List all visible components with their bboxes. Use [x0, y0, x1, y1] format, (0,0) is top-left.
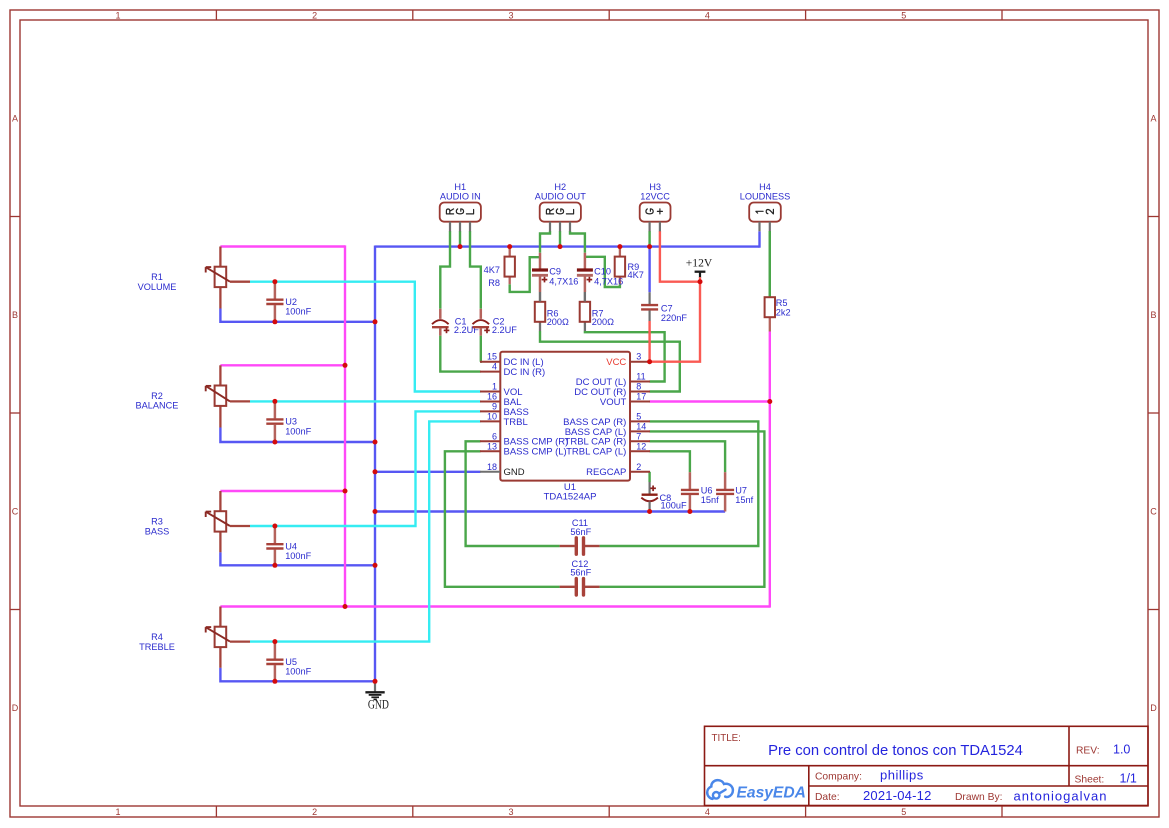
svg-text:5: 5 [901, 10, 906, 20]
U1 pin 15 DC IN (L) [480, 352, 544, 368]
svg-text:C: C [12, 507, 19, 517]
svg-text:U6: U6 [701, 486, 713, 496]
capacitor U5 [266, 642, 311, 682]
svg-text:AUDIO OUT: AUDIO OUT [535, 192, 586, 202]
capacitor U4 [266, 526, 311, 565]
svg-text:2.2UF: 2.2UF [492, 325, 517, 335]
svg-text:56nF: 56nF [570, 568, 591, 578]
wire GND bus [375, 245, 760, 247]
wire magenta right vertical R5/VOUT [769, 332, 771, 608]
capacitor C11 [560, 518, 600, 554]
svg-text:+12V: +12V [686, 255, 713, 269]
svg-text:H4: H4 [759, 182, 771, 192]
U1 pin 11 DC OUT (L) [576, 372, 650, 388]
svg-text:16: 16 [487, 392, 497, 402]
svg-text:10: 10 [487, 411, 497, 421]
svg-text:5: 5 [901, 807, 906, 817]
svg-text:4: 4 [705, 10, 710, 20]
wire TRBL cyan R4 wiper to pin 10 [250, 421, 481, 641]
wire U1 pin 5 to C11 [600, 421, 759, 546]
power flag +12V [686, 255, 713, 281]
svg-text:BALANCE: BALANCE [136, 401, 179, 411]
wire R2 top magenta [220, 364, 345, 366]
U1 pin 14 BASS CAP (L) [565, 421, 650, 437]
wire H1 G pin to bus [459, 231, 461, 247]
wire GND vertical [374, 246, 376, 682]
EasyEDA logo [707, 780, 806, 801]
wire R3 top magenta [220, 490, 345, 492]
U1 pin 2 REGCAP [586, 462, 650, 478]
svg-text:U5: U5 [285, 657, 297, 667]
svg-text:Sheet:: Sheet: [1075, 775, 1105, 786]
wire U1 pin 7 to U7 [650, 441, 726, 472]
wire C7 bottom to VCC [648, 321, 650, 362]
svg-text:R3: R3 [151, 517, 163, 527]
svg-text:Date:: Date: [815, 792, 840, 803]
svg-text:A: A [12, 114, 18, 124]
svg-text:EasyEDA: EasyEDA [737, 784, 806, 801]
capacitor U6 [681, 472, 719, 511]
U1 pin 3 VCC [606, 352, 650, 368]
resistor R8 [484, 247, 515, 288]
svg-text:1/1: 1/1 [1120, 772, 1137, 786]
wire +12V to U1 pin 3 VCC [650, 282, 701, 362]
svg-text:GND: GND [504, 467, 525, 478]
U1 pin 16 BAL [480, 392, 521, 408]
wire R3 bottom to GND [220, 552, 375, 565]
svg-text:C9: C9 [549, 267, 561, 277]
wire BAL cyan R2 wiper to pin 16 [250, 400, 481, 402]
wire R1 bottom to GND [220, 309, 375, 322]
wire U1 pin 14 to C12 [600, 431, 765, 586]
svg-text:Company:: Company: [815, 772, 862, 783]
resistor R6 [535, 292, 569, 331]
svg-text:H2: H2 [554, 182, 566, 192]
capacitor C10 [577, 253, 623, 302]
junction dots [272, 244, 772, 684]
svg-text:VCC: VCC [606, 357, 626, 368]
svg-text:220nF: 220nF [661, 313, 687, 323]
svg-text:TRBL: TRBL [504, 417, 528, 428]
svg-text:100nF: 100nF [285, 426, 311, 436]
svg-text:200Ω: 200Ω [592, 317, 614, 327]
wire R7 bottom to U1 pin 11 [585, 331, 665, 382]
svg-text:100nF: 100nF [285, 307, 311, 317]
ground symbol GND [365, 682, 389, 712]
svg-text:BASS CMP (L): BASS CMP (L) [504, 447, 567, 458]
wire R1 top magenta [220, 245, 345, 247]
capacitor C2 [473, 309, 518, 336]
svg-text:1.0: 1.0 [1113, 743, 1130, 757]
svg-text:1: 1 [492, 382, 497, 392]
wire BASS cyan R3 wiper to pin 9 [250, 411, 481, 526]
svg-text:H1: H1 [454, 182, 466, 192]
wire H1 R pin to C1 [440, 231, 450, 309]
svg-text:3: 3 [508, 807, 513, 817]
wire C12 to U1 pin 13 [445, 451, 560, 587]
header H2 [535, 182, 586, 231]
svg-text:7: 7 [636, 431, 641, 441]
svg-text:3: 3 [508, 10, 513, 20]
svg-text:R5: R5 [776, 298, 788, 308]
svg-text:B: B [12, 310, 18, 320]
svg-text:Drawn By:: Drawn By: [955, 792, 1003, 803]
U1 pin 1 VOL [480, 382, 523, 398]
potentiometer R2 [136, 365, 250, 427]
svg-text:B: B [1150, 310, 1156, 320]
U1 pin 10 TRBL [480, 411, 528, 427]
U1 pin 17 VOUT [600, 392, 650, 408]
resistor R5 [765, 231, 791, 332]
svg-text:9: 9 [492, 401, 497, 411]
svg-text:18: 18 [487, 462, 497, 472]
svg-text:4,7X16: 4,7X16 [549, 276, 578, 286]
wire bus to H4 pin1 [758, 231, 760, 247]
svg-text:1: 1 [115, 10, 120, 20]
svg-text:U2: U2 [285, 297, 297, 307]
svg-text:LOUDNESS: LOUDNESS [740, 192, 791, 202]
svg-text:13: 13 [487, 441, 497, 451]
svg-text:U7: U7 [735, 486, 747, 496]
IC U1 TDA1524AP [500, 352, 630, 503]
svg-text:4K7: 4K7 [628, 270, 644, 280]
svg-text:6: 6 [492, 431, 497, 441]
svg-text:TITLE:: TITLE: [712, 733, 741, 744]
wire to U1 pin 18 GND [375, 471, 481, 473]
wire H2 G pin to bus [559, 231, 561, 247]
svg-text:8: 8 [636, 382, 641, 392]
capacitor C9 [532, 253, 578, 302]
wire H1 L pin to C2 [470, 231, 481, 309]
svg-text:D: D [12, 703, 19, 713]
resistor R7 [580, 292, 614, 331]
svg-text:4: 4 [705, 807, 710, 817]
svg-text:AUDIO IN: AUDIO IN [440, 192, 481, 202]
svg-text:TREBLE: TREBLE [139, 642, 175, 652]
U1 pin 7 TRBL CAP (R) [565, 431, 650, 447]
svg-text:GND: GND [368, 698, 389, 712]
svg-text:2: 2 [312, 10, 317, 20]
svg-text:2k2: 2k2 [776, 308, 791, 318]
svg-text:DC IN (R): DC IN (R) [504, 367, 546, 378]
svg-text:BASS: BASS [145, 526, 170, 536]
wire R8 bottom to C9 top [510, 257, 539, 292]
svg-text:phillips: phillips [880, 768, 924, 783]
wire C2 to U1 pin 15 [479, 336, 482, 362]
svg-text:56nF: 56nF [570, 527, 591, 537]
wire U1 pin 12 to U6 [650, 451, 690, 472]
svg-text:200Ω: 200Ω [547, 317, 569, 327]
header H1 [440, 182, 481, 231]
capacitor C8 [641, 482, 687, 512]
svg-text:11: 11 [636, 372, 645, 382]
capacitor U3 [266, 401, 311, 442]
svg-text:2: 2 [312, 807, 317, 817]
svg-text:1: 1 [115, 807, 120, 817]
svg-text:100nF: 100nF [285, 667, 311, 677]
svg-text:2021-04-12: 2021-04-12 [863, 788, 932, 803]
U1 pin 12 TRBL CAP (L) [566, 441, 650, 457]
svg-text:TRBL CAP (L): TRBL CAP (L) [566, 447, 626, 458]
svg-text:100uF: 100uF [661, 500, 687, 510]
wire U1 VOUT pin 17 [650, 400, 770, 402]
svg-text:C10: C10 [594, 267, 611, 277]
wire C8/U6/U7 ground line [375, 510, 725, 512]
capacitor C1 [432, 309, 479, 336]
svg-text:3: 3 [636, 352, 641, 362]
U1 pin 18 GND [480, 462, 525, 478]
U1 pin 6 BASS CMP (R) [480, 431, 568, 447]
U1 pin 5 BASS CAP (R) [563, 411, 650, 427]
svg-text:D: D [1150, 703, 1157, 713]
svg-text:15: 15 [487, 352, 497, 362]
svg-text:4,7X16: 4,7X16 [594, 276, 623, 286]
svg-text:A: A [1150, 114, 1156, 124]
wire U1 pin 2 REGCAP to C8 [648, 472, 650, 482]
svg-text:R4: R4 [151, 632, 163, 642]
wire C1 to U1 pin 4 [440, 336, 480, 372]
svg-text:12VCC: 12VCC [640, 192, 670, 202]
wire H2 L pin to C10 [570, 231, 585, 253]
svg-text:TDA1524AP: TDA1524AP [544, 491, 597, 502]
U1 pin 13 BASS CMP (L) [480, 441, 567, 457]
wire C7 top to bus [648, 247, 650, 293]
svg-text:C: C [1150, 507, 1157, 517]
wire C11 to U1 pin 6 [466, 441, 560, 546]
svg-text:R8: R8 [488, 278, 500, 288]
svg-text:VOUT: VOUT [600, 397, 627, 408]
U1 pin 9 BASS [480, 401, 529, 417]
wire R4 top magenta to right [220, 605, 769, 607]
header H4 [740, 182, 791, 231]
wire R2 bottom to GND [220, 428, 375, 443]
svg-text:U4: U4 [285, 541, 297, 551]
header H3 [640, 182, 671, 231]
wire H2 R pin to C9 [540, 231, 550, 253]
U1 pin 8 DC OUT (R) [574, 382, 650, 398]
wire R4 bottom to GND [220, 668, 375, 682]
svg-text:Pre con control de tonos con T: Pre con control de tonos con TDA1524 [768, 743, 1023, 759]
svg-text:12: 12 [636, 441, 646, 451]
capacitor C12 [560, 559, 600, 595]
svg-text:14: 14 [636, 421, 646, 431]
capacitor U2 [266, 282, 311, 322]
wire H4 pin2 to R5 [769, 231, 771, 297]
svg-text:U3: U3 [285, 417, 297, 427]
svg-text:REGCAP: REGCAP [586, 467, 626, 478]
svg-text:R2: R2 [151, 391, 163, 401]
svg-text:5: 5 [636, 411, 641, 421]
svg-text:antoniogalvan: antoniogalvan [1014, 788, 1108, 803]
svg-text:R1: R1 [151, 272, 163, 282]
capacitor C7 [641, 292, 687, 323]
wire VOL cyan R1 wiper to pin 1 [250, 282, 481, 392]
svg-text:17: 17 [636, 392, 646, 402]
svg-text:4: 4 [492, 362, 497, 372]
wire R9 bottom to C10 top [586, 257, 620, 287]
svg-text:C7: C7 [661, 303, 673, 313]
svg-text:H3: H3 [649, 182, 661, 192]
wire R6 bottom to U1 pin 8 [540, 331, 680, 392]
potentiometer R3 [145, 491, 250, 552]
svg-text:15nf: 15nf [735, 495, 753, 505]
svg-text:15nf: 15nf [701, 495, 719, 505]
capacitor U7 [716, 472, 754, 511]
potentiometer R4 [139, 607, 250, 668]
svg-text:2: 2 [636, 462, 641, 472]
potentiometer R1 [138, 247, 250, 309]
resistor R9 [615, 247, 644, 285]
wire VOUT vertical magenta [344, 245, 346, 606]
wire H3 G pin to bus [648, 231, 650, 247]
wire H3 + pin to +12V [660, 231, 700, 282]
U1 pin 4 DC IN (R) [480, 362, 545, 378]
svg-text:VOLUME: VOLUME [138, 282, 177, 292]
svg-text:REV:: REV: [1076, 745, 1100, 756]
svg-text:4K7: 4K7 [484, 265, 500, 275]
svg-text:100nF: 100nF [285, 551, 311, 561]
title block [705, 726, 1149, 805]
